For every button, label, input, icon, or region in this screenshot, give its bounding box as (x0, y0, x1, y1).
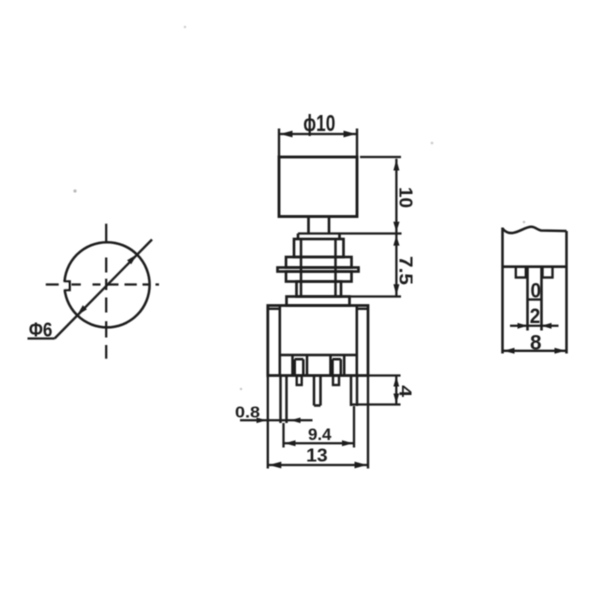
svg-text:7.5: 7.5 (396, 256, 416, 285)
svg-text:Φ6: Φ6 (29, 318, 53, 341)
svg-text:13: 13 (306, 445, 328, 466)
svg-text:10: 10 (396, 187, 416, 208)
svg-text:2: 2 (530, 305, 541, 328)
svg-text:9.4: 9.4 (308, 425, 332, 444)
svg-text:4: 4 (396, 385, 416, 397)
svg-text:ϕ10: ϕ10 (303, 110, 335, 136)
svg-text:0.8: 0.8 (235, 405, 260, 422)
